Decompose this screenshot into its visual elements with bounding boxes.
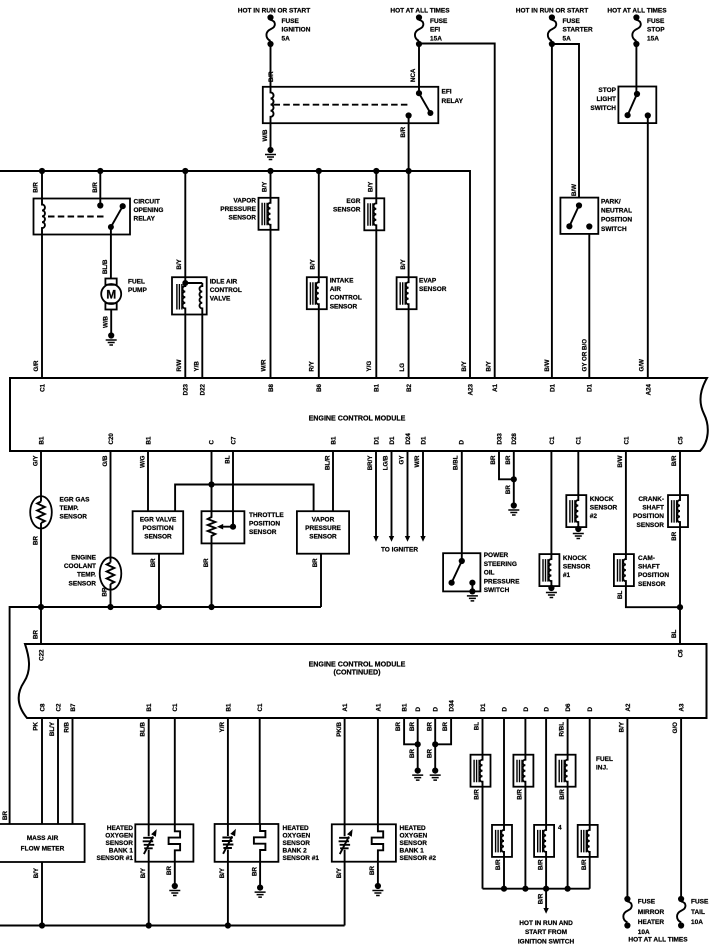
svg-text:PK: PK xyxy=(33,721,40,730)
svg-text:B/Y: B/Y xyxy=(367,181,374,192)
wire D to ground, BR xyxy=(417,718,419,771)
svg-text:M: M xyxy=(106,287,116,301)
svg-text:#2: #2 xyxy=(590,513,598,520)
svg-text:SENSOR: SENSOR xyxy=(60,514,88,521)
svg-text:OXYGEN: OXYGEN xyxy=(105,833,133,840)
ground below power steering switch xyxy=(467,588,478,601)
svg-text:FUEL: FUEL xyxy=(128,278,145,285)
svg-text:IGNITION: IGNITION xyxy=(282,27,311,34)
svg-text:EGR VALVE: EGR VALVE xyxy=(140,517,177,524)
fuse STARTER 5A xyxy=(548,14,556,47)
svg-text:D: D xyxy=(544,707,551,712)
wire igniter D1, BR/Y xyxy=(375,451,377,536)
svg-text:CRANK-: CRANK- xyxy=(638,496,664,503)
fuse IGNITION 5A xyxy=(266,14,274,47)
svg-text:POSITION: POSITION xyxy=(633,513,664,520)
svg-text:D23: D23 xyxy=(183,383,190,395)
svg-text:SWITCH: SWITCH xyxy=(601,226,627,233)
svg-text:G/B: G/B xyxy=(102,455,109,467)
wire EGR gas temp sensor to BR bus xyxy=(40,523,42,607)
svg-text:D1: D1 xyxy=(587,383,594,391)
svg-text:B/BL: B/BL xyxy=(452,455,459,470)
svg-text:A23: A23 xyxy=(467,383,474,395)
svg-text:TEMP.: TEMP. xyxy=(77,572,96,579)
svg-text:COOLANT: COOLANT xyxy=(64,563,96,570)
svg-text:LIGHT: LIGHT xyxy=(597,96,617,103)
meter MASS AIR FLOW METER xyxy=(41,718,43,824)
svg-text:SENSOR: SENSOR xyxy=(144,534,172,541)
svg-text:HEATED: HEATED xyxy=(400,825,427,832)
wire A2 to fuse mirror heater, B/Y xyxy=(626,718,628,899)
svg-text:C1: C1 xyxy=(257,703,264,711)
svg-text:BL: BL xyxy=(474,722,481,730)
injector FUEL INJ. no.3 xyxy=(567,718,569,755)
svg-text:D28: D28 xyxy=(511,433,518,445)
wire camshaft sensor join, BL xyxy=(626,586,680,607)
svg-text:B1: B1 xyxy=(38,436,45,444)
svg-text:SENSOR #1: SENSOR #1 xyxy=(97,855,134,862)
svg-text:B/Y: B/Y xyxy=(262,181,269,192)
svg-text:FUSE: FUSE xyxy=(563,18,581,25)
svg-text:R/B: R/B xyxy=(63,721,70,732)
svg-text:SENSOR #2: SENSOR #2 xyxy=(400,855,437,862)
svg-text:TEMP.: TEMP. xyxy=(60,505,79,512)
wire O2 bank1#1 to B/Y bus xyxy=(148,862,150,926)
svg-text:THROTTLE: THROTTLE xyxy=(249,512,284,519)
wire BR bus to ECM pin C22 xyxy=(40,607,42,644)
svg-text:D: D xyxy=(433,707,440,712)
svg-text:D: D xyxy=(458,440,465,445)
injector FUEL INJ. no.1 xyxy=(482,718,484,755)
wire O2 bank1#2 to B/Y bus xyxy=(344,862,346,926)
svg-text:BR/Y: BR/Y xyxy=(367,455,374,471)
svg-text:BR: BR xyxy=(395,721,402,730)
module ENGINE CONTROL MODULE (band 1) xyxy=(10,378,708,451)
svg-text:BR: BR xyxy=(150,558,157,567)
svg-text:SENSOR: SENSOR xyxy=(69,580,97,587)
svg-text:BR: BR xyxy=(33,536,40,545)
fuse STOP 15A xyxy=(632,14,640,47)
svg-text:C22: C22 xyxy=(38,649,45,661)
wire O2 bank2#1 heater to ground, BR xyxy=(259,862,261,888)
wire throttle position sensor to BR bus, BR xyxy=(211,540,213,608)
svg-text:VAPOR: VAPOR xyxy=(312,517,335,524)
svg-text:BR: BR xyxy=(409,721,416,730)
svg-text:SENSOR: SENSOR xyxy=(563,564,591,571)
svg-text:C1: C1 xyxy=(549,436,556,444)
svg-text:BL: BL xyxy=(617,591,624,599)
svg-text:TO IGNITER: TO IGNITER xyxy=(381,547,418,554)
svg-text:POWER: POWER xyxy=(484,552,509,559)
svg-text:BANK 2: BANK 2 xyxy=(283,848,308,855)
wire intake air sensor to ECM pin B6, R/Y xyxy=(318,309,320,378)
svg-text:BR: BR xyxy=(251,867,258,876)
svg-text:Y/R: Y/R xyxy=(219,721,226,732)
svg-text:TAIL: TAIL xyxy=(691,909,705,916)
svg-text:SENSOR: SENSOR xyxy=(229,215,257,222)
injector FUEL INJ. no.4 xyxy=(503,718,505,825)
wire B/Y ground bus (bottom) xyxy=(0,925,345,927)
svg-text:FLOW METER: FLOW METER xyxy=(21,846,65,853)
svg-text:BR: BR xyxy=(166,866,173,875)
svg-text:5A: 5A xyxy=(282,35,291,42)
svg-text:VALVE: VALVE xyxy=(210,296,231,303)
svg-text:B/R: B/R xyxy=(537,893,544,904)
svg-text:D1: D1 xyxy=(373,436,380,444)
svg-text:B/R: B/R xyxy=(268,71,275,82)
svg-text:C7: C7 xyxy=(230,436,237,444)
svg-text:OIL: OIL xyxy=(484,570,495,577)
svg-text:D: D xyxy=(587,707,594,712)
svg-text:MIRROR: MIRROR xyxy=(638,909,665,916)
svg-text:B/R: B/R xyxy=(537,859,544,870)
svg-text:EGR: EGR xyxy=(346,198,360,205)
wire EGR valve position sensor to BR bus, BR xyxy=(158,554,160,607)
svg-text:FUSE: FUSE xyxy=(282,18,300,25)
wire EGR sensor to ECM pin B1, Y/G xyxy=(375,230,377,378)
wire park/neutral switch to ECM pin D1, GY OR B/O xyxy=(588,234,590,378)
wire fuse stop to stop light switch xyxy=(635,44,637,94)
svg-text:15A: 15A xyxy=(430,35,442,42)
fuse MIRROR HEATER 10A xyxy=(623,896,631,929)
svg-text:B/Y: B/Y xyxy=(485,360,492,371)
svg-text:BR: BR xyxy=(312,558,319,567)
svg-text:BR: BR xyxy=(33,630,40,639)
ground below D 2 xyxy=(430,768,441,781)
svg-text:B/Y: B/Y xyxy=(461,360,468,371)
wire idle air valve to ECM pin D23, R/W xyxy=(184,315,186,379)
svg-text:C1: C1 xyxy=(172,703,179,711)
svg-text:BR: BR xyxy=(2,811,9,820)
svg-text:15A: 15A xyxy=(647,35,659,42)
motor FUEL PUMP xyxy=(105,279,116,285)
svg-text:G/Y: G/Y xyxy=(32,455,39,467)
svg-text:SENSOR: SENSOR xyxy=(419,286,447,293)
svg-text:HEATED: HEATED xyxy=(107,825,134,832)
fuse EFI 15A xyxy=(415,14,423,47)
svg-text:B/Y: B/Y xyxy=(140,867,147,878)
svg-text:D22: D22 xyxy=(200,383,207,395)
sensor EGR VALVE POSITION SENSOR xyxy=(147,451,149,511)
svg-text:ENGINE CONTROL MODULE: ENGINE CONTROL MODULE xyxy=(309,415,406,423)
svg-text:5A: 5A xyxy=(563,35,572,42)
wire B1 to ground join, BR xyxy=(404,718,418,744)
sensor EVAP SENSOR xyxy=(408,171,410,277)
svg-text:STOP: STOP xyxy=(598,87,616,94)
svg-text:SENSOR: SENSOR xyxy=(333,207,361,214)
module ENGINE CONTROL MODULE (CONTINUED) (band 2) xyxy=(19,644,707,718)
sensor IDLE AIR CONTROL VALVE xyxy=(184,171,186,277)
wire O2 bank1#2 heater to ground, BR xyxy=(377,862,379,886)
svg-text:PARK/: PARK/ xyxy=(601,199,621,206)
svg-text:B/R: B/R xyxy=(581,859,588,870)
svg-text:D6: D6 xyxy=(565,703,572,711)
svg-text:BR: BR xyxy=(490,455,497,464)
svg-text:B/R: B/R xyxy=(517,789,524,800)
svg-text:10A: 10A xyxy=(691,919,703,926)
svg-text:SHAFT: SHAFT xyxy=(638,564,660,571)
svg-text:D1: D1 xyxy=(480,703,487,711)
svg-text:GY OR B/O: GY OR B/O xyxy=(582,339,589,372)
svg-text:ENGINE: ENGINE xyxy=(71,555,97,562)
svg-text:R/W: R/W xyxy=(176,359,183,371)
switch POWER STEERING OIL PRESSURE SWITCH xyxy=(461,451,463,561)
svg-text:R/Y: R/Y xyxy=(308,360,315,371)
svg-text:INTAKE: INTAKE xyxy=(330,278,354,285)
svg-text:POSITION: POSITION xyxy=(601,217,632,224)
wire fuel pump to ground, W/B xyxy=(110,310,112,336)
svg-text:B/Y: B/Y xyxy=(219,867,226,878)
wire main bus from EFI relay coil supply xyxy=(0,171,470,378)
svg-text:B7: B7 xyxy=(70,703,77,711)
svg-text:KNOCK: KNOCK xyxy=(563,555,587,562)
svg-text:BL/B: BL/B xyxy=(102,259,109,274)
wire MAF to B/Y bus xyxy=(41,862,43,926)
svg-text:NEUTRAL: NEUTRAL xyxy=(601,208,632,215)
wire EFI relay coil to ground, W/B xyxy=(270,123,272,150)
svg-text:C8: C8 xyxy=(39,703,46,711)
svg-text:SENSOR: SENSOR xyxy=(106,840,134,847)
wire EFI relay switch output to bus, B/R xyxy=(408,116,410,172)
wire vapor pressure sensor (lower) to BR bus, BR xyxy=(320,554,322,607)
svg-text:A2: A2 xyxy=(625,703,632,711)
svg-text:HEATED: HEATED xyxy=(283,825,310,832)
svg-text:BR: BR xyxy=(442,721,449,730)
svg-text:BR: BR xyxy=(102,587,109,596)
wire igniter D24, GY xyxy=(407,451,409,536)
sensor HEATED OXYGEN SENSOR BANK 1 SENSOR #1 xyxy=(148,718,150,824)
svg-text:C5: C5 xyxy=(677,436,684,444)
svg-text:#1: #1 xyxy=(563,572,571,579)
svg-text:Y/G: Y/G xyxy=(366,361,373,372)
svg-text:B2: B2 xyxy=(406,383,413,391)
wire relay switch to fuel pump, BL/B xyxy=(110,227,112,279)
svg-text:RELAY: RELAY xyxy=(134,216,156,223)
svg-text:B/Y: B/Y xyxy=(619,721,626,732)
svg-text:BR: BR xyxy=(505,485,512,494)
wire igniter D1, LG/B xyxy=(391,451,393,536)
svg-text:PRESSURE: PRESSURE xyxy=(220,206,256,213)
svg-text:A3: A3 xyxy=(679,703,686,711)
svg-text:LG: LG xyxy=(399,363,406,372)
svg-text:B1: B1 xyxy=(225,703,232,711)
svg-text:A1: A1 xyxy=(342,703,349,711)
svg-text:LG/B: LG/B xyxy=(383,455,390,470)
switch PARK/NEUTRAL POSITION SWITCH xyxy=(560,198,598,234)
svg-text:HOT IN RUN AND: HOT IN RUN AND xyxy=(519,920,573,927)
svg-text:POSITION: POSITION xyxy=(249,521,280,528)
svg-text:B/W: B/W xyxy=(617,455,624,467)
svg-text:STOP: STOP xyxy=(647,27,665,34)
svg-text:10A: 10A xyxy=(638,929,650,936)
svg-text:VAPOR: VAPOR xyxy=(233,198,256,205)
svg-text:B6: B6 xyxy=(316,383,323,391)
wire idle air valve to ECM pin D22, Y/B xyxy=(201,315,203,379)
svg-text:NCA: NCA xyxy=(410,68,417,82)
svg-text:B1: B1 xyxy=(402,703,409,711)
svg-text:PRESSURE: PRESSURE xyxy=(484,578,520,585)
sensor CAMSHAFT POSITION SENSOR xyxy=(625,451,627,554)
svg-text:4: 4 xyxy=(558,825,562,832)
svg-text:IDLE AIR: IDLE AIR xyxy=(210,279,238,286)
svg-text:BR: BR xyxy=(505,455,512,464)
sensor VAPOR PRESSURE SENSOR xyxy=(270,171,272,198)
svg-text:D34: D34 xyxy=(449,700,456,712)
sensor HEATED OXYGEN SENSOR BANK 2 SENSOR #1 xyxy=(227,718,229,824)
svg-text:CIRCUIT: CIRCUIT xyxy=(134,198,160,205)
svg-text:HOT IN RUN OR START: HOT IN RUN OR START xyxy=(516,8,588,15)
svg-text:PUMP: PUMP xyxy=(128,287,147,294)
svg-text:(CONTINUED): (CONTINUED) xyxy=(334,669,382,677)
sensor EGR SENSOR xyxy=(375,171,377,198)
injector FUEL INJ. no.6 xyxy=(589,718,591,825)
svg-text:SENSOR: SENSOR xyxy=(590,505,618,512)
svg-text:B/R: B/R xyxy=(92,182,99,193)
svg-text:ENGINE CONTROL MODULE: ENGINE CONTROL MODULE xyxy=(309,661,406,669)
svg-text:EVAP: EVAP xyxy=(419,278,437,285)
svg-text:B/R: B/R xyxy=(474,789,481,800)
svg-text:A1: A1 xyxy=(375,703,382,711)
wire D to ground 2, BR xyxy=(434,718,436,771)
svg-text:CONTROL: CONTROL xyxy=(330,295,362,302)
wire stop light switch to ECM pin A24, G/W xyxy=(647,116,649,379)
svg-text:STARTER: STARTER xyxy=(563,27,594,34)
svg-text:D: D xyxy=(415,707,422,712)
svg-text:D: D xyxy=(523,707,530,712)
svg-text:B1: B1 xyxy=(374,383,381,391)
svg-text:FUEL: FUEL xyxy=(596,756,613,763)
sensor CRANKSHAFT POSITION SENSOR xyxy=(679,451,681,495)
wire injector common B/R bus xyxy=(483,888,590,890)
sensor EGR GAS TEMP. SENSOR xyxy=(40,451,42,502)
svg-text:C2: C2 xyxy=(55,703,62,711)
svg-text:EGR GAS: EGR GAS xyxy=(60,497,91,504)
svg-text:FUSE: FUSE xyxy=(430,18,448,25)
svg-text:B/Y: B/Y xyxy=(176,258,183,269)
svg-text:B/Y: B/Y xyxy=(400,258,407,269)
svg-text:B1: B1 xyxy=(146,703,153,711)
svg-text:MASS AIR: MASS AIR xyxy=(27,835,59,842)
svg-text:C: C xyxy=(208,440,215,445)
sensor KNOCK SENSOR #2 xyxy=(577,451,579,495)
sensor VAPOR PRESSURE SENSOR (lower) xyxy=(332,451,334,511)
svg-text:BANK 1: BANK 1 xyxy=(109,848,134,855)
svg-text:D1: D1 xyxy=(549,383,556,391)
wire branch to park/neutral switch, B/W xyxy=(552,44,579,198)
relay CIRCUIT OPENING RELAY xyxy=(34,199,131,235)
svg-text:FUSE: FUSE xyxy=(691,899,709,906)
svg-text:BL/Y: BL/Y xyxy=(49,721,56,736)
svg-text:HEATER: HEATER xyxy=(638,919,665,926)
sensor KNOCK SENSOR #1 xyxy=(550,451,552,554)
svg-text:D: D xyxy=(501,707,508,712)
sensor INTAKE AIR CONTROL SENSOR xyxy=(318,171,320,277)
svg-text:KNOCK: KNOCK xyxy=(590,496,614,503)
wire branch to ECM pin A1, B/Y xyxy=(419,44,495,379)
svg-text:B/Y: B/Y xyxy=(33,867,40,878)
svg-text:G/W: G/W xyxy=(638,359,645,372)
svg-text:B/W: B/W xyxy=(544,359,551,371)
svg-text:B8: B8 xyxy=(268,383,275,391)
relay EFI RELAY xyxy=(263,87,439,123)
svg-text:INJ.: INJ. xyxy=(596,765,608,772)
wire coolant temp sensor to BR bus xyxy=(110,584,112,607)
svg-text:BR: BR xyxy=(369,866,376,875)
svg-text:HOT AT ALL TIMES: HOT AT ALL TIMES xyxy=(628,937,688,944)
svg-text:B/Y: B/Y xyxy=(309,258,316,269)
svg-text:B/R: B/R xyxy=(33,182,40,193)
svg-text:R/BL: R/BL xyxy=(559,722,566,737)
svg-text:START FROM: START FROM xyxy=(525,929,567,936)
svg-text:B/Y: B/Y xyxy=(336,867,343,878)
wire fuse ignition to EFI relay coil, B/R xyxy=(270,47,272,88)
svg-text:OPENING: OPENING xyxy=(134,207,164,214)
injector FUEL INJ. no.5 xyxy=(545,718,547,825)
svg-text:SWITCH: SWITCH xyxy=(484,587,510,594)
svg-text:D24: D24 xyxy=(405,433,412,445)
svg-text:C6: C6 xyxy=(677,649,684,657)
svg-text:BL/B: BL/B xyxy=(140,721,147,736)
svg-text:BR: BR xyxy=(426,748,433,757)
wire D33 to ground, BR xyxy=(499,451,514,479)
svg-text:D33: D33 xyxy=(496,433,503,445)
ground below D xyxy=(412,768,423,781)
svg-text:AIR: AIR xyxy=(330,286,342,293)
svg-text:STEERING: STEERING xyxy=(484,561,517,568)
svg-text:IGNITION SWITCH: IGNITION SWITCH xyxy=(518,938,575,945)
wire A3 to fuse tail, G/O xyxy=(680,718,682,899)
svg-text:C1: C1 xyxy=(623,436,630,444)
svg-text:SENSOR: SENSOR xyxy=(249,529,277,536)
svg-text:Y/B: Y/B xyxy=(193,361,200,372)
wire vapor pressure sensor to ECM pin B8, W/R xyxy=(270,230,272,378)
wire O2 bank1#1 heater to ground, BR xyxy=(174,862,176,886)
ground below fuel pump xyxy=(106,332,117,345)
svg-text:G/R: G/R xyxy=(33,360,40,372)
svg-text:POSITION: POSITION xyxy=(638,572,669,579)
svg-text:CAM-: CAM- xyxy=(638,555,655,562)
svg-text:CONTROL: CONTROL xyxy=(210,287,242,294)
svg-text:GY: GY xyxy=(399,455,406,465)
svg-text:HOT AT ALL TIMES: HOT AT ALL TIMES xyxy=(390,8,450,15)
wire fuse EFI to relay switch, NCA xyxy=(418,44,420,93)
svg-text:BL: BL xyxy=(671,630,678,638)
svg-text:C1: C1 xyxy=(576,436,583,444)
svg-text:SENSOR: SENSOR xyxy=(400,840,428,847)
svg-text:B/W: B/W xyxy=(571,184,578,196)
svg-text:EFI: EFI xyxy=(430,27,440,34)
ground below knock sensor 2 xyxy=(577,527,579,529)
wire D28 to ground, BR xyxy=(513,451,515,506)
svg-text:POSITION: POSITION xyxy=(142,525,173,532)
svg-text:BR: BR xyxy=(426,721,433,730)
svg-text:W/G: W/G xyxy=(139,455,146,468)
svg-text:B/R: B/R xyxy=(671,455,678,466)
svg-text:SENSOR: SENSOR xyxy=(309,534,337,541)
sensor HEATED OXYGEN SENSOR BANK 1 SENSOR #2 xyxy=(344,718,346,824)
svg-text:BL: BL xyxy=(224,455,231,463)
wire D34 to ground join, BR xyxy=(435,718,451,744)
wire fuse starter to ECM pin D1, B/W xyxy=(551,44,553,378)
svg-text:SENSOR: SENSOR xyxy=(330,303,358,310)
svg-text:RELAY: RELAY xyxy=(442,98,464,105)
svg-text:B/R: B/R xyxy=(400,126,407,137)
svg-text:B1: B1 xyxy=(145,436,152,444)
wire sensor link from pin C xyxy=(175,485,314,512)
svg-text:C1: C1 xyxy=(39,383,46,391)
ground below knock sensor 1 xyxy=(550,586,552,588)
svg-text:EFI: EFI xyxy=(442,89,452,96)
